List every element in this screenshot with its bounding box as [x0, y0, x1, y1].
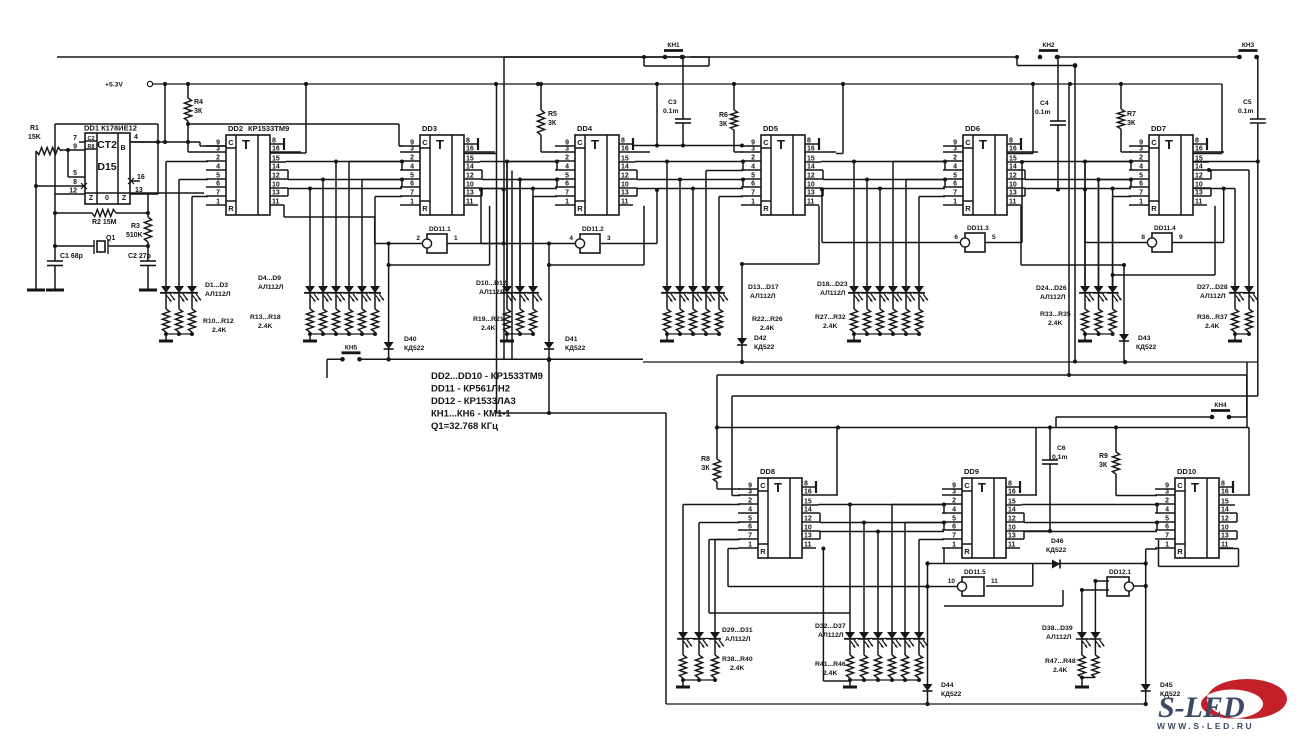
svg-text:S-LED: S-LED: [1158, 691, 1245, 724]
svg-text:T: T: [979, 137, 987, 152]
svg-text:10: 10: [948, 578, 956, 585]
svg-text:АЛ112Л: АЛ112Л: [1040, 294, 1066, 301]
svg-text:5: 5: [216, 173, 220, 180]
svg-text:C3: C3: [668, 99, 677, 106]
svg-text:5: 5: [953, 173, 957, 180]
svg-text:3: 3: [748, 489, 752, 496]
svg-text:11: 11: [991, 578, 998, 585]
svg-text:D43: D43: [1138, 335, 1151, 342]
svg-text:DD11.1: DD11.1: [429, 226, 451, 233]
svg-text:R7: R7: [1127, 111, 1136, 118]
svg-text:R: R: [763, 204, 769, 213]
svg-text:T: T: [777, 137, 785, 152]
svg-text:DD1 К178ИЕ12: DD1 К178ИЕ12: [84, 124, 137, 133]
svg-text:T: T: [774, 480, 782, 495]
svg-text:1: 1: [216, 199, 220, 206]
svg-text:R4: R4: [194, 99, 203, 106]
svg-text:6: 6: [748, 524, 752, 531]
svg-text:2: 2: [565, 155, 569, 162]
svg-text:4: 4: [1139, 164, 1143, 171]
svg-text:DD5: DD5: [763, 124, 778, 133]
svg-text:5: 5: [1139, 173, 1143, 180]
svg-text:D46: D46: [1051, 538, 1064, 545]
svg-text:R22...R26: R22...R26: [752, 316, 783, 323]
svg-text:АЛ112Л: АЛ112Л: [479, 289, 505, 296]
svg-text:0: 0: [105, 195, 109, 202]
svg-text:D27...D28: D27...D28: [1197, 284, 1228, 291]
svg-text:3К: 3К: [548, 120, 557, 127]
svg-text:Q1=32.768 КГц: Q1=32.768 КГц: [431, 421, 498, 432]
svg-text:C: C: [1151, 138, 1157, 147]
svg-text:R10...R12: R10...R12: [203, 318, 234, 325]
svg-text:R41...R46: R41...R46: [815, 661, 846, 668]
svg-text:DD4: DD4: [577, 124, 593, 133]
svg-text:КД522: КД522: [565, 345, 586, 352]
svg-text:R: R: [422, 204, 428, 213]
svg-text:0.1m: 0.1m: [663, 108, 679, 115]
svg-text:0.1m: 0.1m: [1035, 109, 1051, 116]
svg-text:DD6: DD6: [965, 124, 980, 133]
svg-text:3К: 3К: [1099, 462, 1108, 469]
svg-text:КН3: КН3: [1242, 42, 1255, 49]
svg-text:DD9: DD9: [964, 467, 979, 476]
svg-text:6: 6: [1139, 181, 1143, 188]
svg-text:D38...D39: D38...D39: [1042, 625, 1073, 632]
svg-text:2: 2: [1165, 498, 1169, 505]
svg-text:3: 3: [216, 146, 220, 153]
svg-text:DD2...DD10 - КР1533ТМ9: DD2...DD10 - КР1533ТМ9: [431, 371, 543, 382]
svg-text:DD11.5: DD11.5: [964, 569, 986, 576]
svg-text:8: 8: [1141, 234, 1145, 241]
svg-text:4: 4: [565, 164, 569, 171]
svg-text:T: T: [1165, 137, 1173, 152]
svg-text:КД522: КД522: [1046, 547, 1067, 554]
svg-text:5: 5: [410, 173, 414, 180]
svg-text:4: 4: [748, 507, 752, 514]
svg-text:510K: 510K: [126, 232, 143, 239]
svg-text:0.1m: 0.1m: [1238, 108, 1254, 115]
svg-text:3: 3: [1139, 146, 1143, 153]
svg-text:4: 4: [134, 134, 138, 141]
svg-text:2.4K: 2.4K: [1205, 323, 1219, 330]
svg-text:DD7: DD7: [1151, 124, 1166, 133]
svg-text:2: 2: [952, 498, 956, 505]
svg-text:1: 1: [1139, 199, 1143, 206]
svg-text:T: T: [242, 137, 250, 152]
svg-text:1: 1: [454, 235, 458, 242]
svg-text:R: R: [964, 547, 970, 556]
svg-text:T: T: [436, 137, 444, 152]
svg-text:3: 3: [953, 146, 957, 153]
svg-text:2: 2: [953, 155, 957, 162]
svg-text:D41: D41: [565, 336, 578, 343]
svg-text:5: 5: [1165, 516, 1169, 523]
svg-text:DD8: DD8: [760, 467, 775, 476]
svg-text:R36...R37: R36...R37: [1197, 314, 1228, 321]
svg-text:DD11.2: DD11.2: [582, 226, 604, 233]
svg-text:КД522: КД522: [1136, 344, 1157, 351]
svg-text:C: C: [1177, 481, 1183, 490]
svg-text:Z: Z: [89, 195, 94, 202]
svg-text:2.4K: 2.4K: [1048, 320, 1062, 327]
svg-text:C: C: [763, 138, 769, 147]
svg-text:АЛ112Л: АЛ112Л: [1200, 293, 1226, 300]
svg-text:4: 4: [953, 164, 957, 171]
svg-text:4: 4: [751, 164, 755, 171]
svg-text:2: 2: [216, 155, 220, 162]
svg-text:C5: C5: [1243, 99, 1252, 106]
svg-text:7: 7: [216, 190, 220, 197]
svg-text:15K: 15K: [28, 134, 41, 141]
svg-text:C: C: [760, 481, 766, 490]
svg-text:5: 5: [751, 173, 755, 180]
svg-text:6: 6: [952, 524, 956, 531]
svg-text:КН1...КН6 - КМ1-1: КН1...КН6 - КМ1-1: [431, 409, 511, 420]
svg-text:3К: 3К: [1127, 120, 1136, 127]
svg-text:2: 2: [748, 498, 752, 505]
svg-text:WWW.S-LED.RU: WWW.S-LED.RU: [1157, 721, 1254, 731]
svg-text:КД522: КД522: [754, 344, 775, 351]
svg-text:5: 5: [952, 516, 956, 523]
svg-text:3: 3: [1165, 489, 1169, 496]
svg-text:АЛ112Л: АЛ112Л: [205, 291, 231, 298]
svg-text:7: 7: [952, 533, 956, 540]
svg-text:АЛ112Л: АЛ112Л: [725, 636, 751, 643]
svg-text:5: 5: [748, 516, 752, 523]
svg-text:R8: R8: [87, 144, 94, 150]
svg-text:R13...R18: R13...R18: [250, 314, 281, 321]
svg-text:DD11.3: DD11.3: [967, 225, 989, 232]
svg-text:КН4: КН4: [1214, 402, 1227, 409]
svg-text:DD12 - КР1533ЛА3: DD12 - КР1533ЛА3: [431, 396, 516, 407]
svg-text:6: 6: [565, 181, 569, 188]
svg-text:D29...D31: D29...D31: [722, 627, 753, 634]
svg-text:R2 15M: R2 15M: [92, 219, 117, 226]
svg-text:4: 4: [952, 507, 956, 514]
svg-text:3: 3: [751, 146, 755, 153]
svg-text:7: 7: [1139, 190, 1143, 197]
svg-text:D10...D12: D10...D12: [476, 280, 507, 287]
svg-text:2.4K: 2.4K: [481, 325, 495, 332]
svg-text:КН5: КН5: [345, 344, 358, 351]
svg-text:CT2: CT2: [97, 139, 117, 151]
svg-text:2: 2: [1139, 155, 1143, 162]
svg-text:5: 5: [73, 170, 77, 177]
svg-text:DD11.4: DD11.4: [1154, 225, 1176, 232]
svg-text:C: C: [577, 138, 583, 147]
svg-text:R9: R9: [1099, 453, 1108, 460]
svg-text:КН1: КН1: [667, 42, 680, 49]
svg-text:T: T: [978, 480, 986, 495]
svg-text:R: R: [577, 204, 583, 213]
svg-text:D1...D3: D1...D3: [205, 282, 228, 289]
svg-text:4: 4: [410, 164, 414, 171]
svg-text:T: T: [591, 137, 599, 152]
svg-text:R33...R35: R33...R35: [1040, 311, 1071, 318]
svg-text:1: 1: [953, 199, 957, 206]
svg-text:D15: D15: [97, 161, 116, 173]
svg-text:КН2: КН2: [1042, 42, 1055, 49]
svg-text:1: 1: [952, 542, 956, 549]
svg-text:6: 6: [954, 234, 958, 241]
svg-text:4: 4: [569, 235, 573, 242]
svg-text:D44: D44: [941, 682, 954, 689]
svg-text:6: 6: [751, 181, 755, 188]
svg-text:6: 6: [1165, 524, 1169, 531]
svg-text:3: 3: [410, 146, 414, 153]
svg-text:АЛ112Л: АЛ112Л: [1046, 634, 1072, 641]
svg-text:16: 16: [137, 174, 145, 181]
svg-text:ЗК: ЗК: [701, 465, 710, 472]
svg-text:4: 4: [1165, 507, 1169, 514]
svg-text:R: R: [965, 204, 971, 213]
svg-text:D18...D23: D18...D23: [817, 281, 848, 288]
svg-text:6: 6: [216, 181, 220, 188]
svg-text:DD10: DD10: [1177, 467, 1196, 476]
svg-text:1: 1: [748, 542, 752, 549]
svg-text:C: C: [228, 138, 234, 147]
svg-text:DD12.1: DD12.1: [1109, 569, 1131, 576]
svg-text:3К: 3К: [719, 121, 728, 128]
svg-text:R27...R32: R27...R32: [815, 314, 846, 321]
svg-text:D45: D45: [1160, 682, 1173, 689]
svg-text:R19...R21: R19...R21: [473, 316, 504, 323]
svg-text:R1: R1: [30, 125, 39, 132]
svg-text:2: 2: [410, 155, 414, 162]
svg-text:C1 68p: C1 68p: [60, 253, 83, 260]
svg-text:C6: C6: [1057, 445, 1066, 452]
svg-text:DD3: DD3: [422, 124, 437, 133]
svg-text:R: R: [228, 204, 234, 213]
svg-text:3: 3: [952, 489, 956, 496]
svg-text:R38...R40: R38...R40: [722, 656, 753, 663]
svg-text:9: 9: [1179, 234, 1183, 241]
svg-text:2.4K: 2.4K: [823, 670, 837, 677]
svg-text:6: 6: [953, 181, 957, 188]
svg-text:3: 3: [565, 146, 569, 153]
svg-text:1: 1: [410, 199, 414, 206]
svg-text:R5: R5: [548, 111, 557, 118]
svg-text:5: 5: [565, 173, 569, 180]
svg-text:КД522: КД522: [941, 691, 962, 698]
svg-text:B: B: [120, 145, 125, 152]
svg-text:4: 4: [216, 164, 220, 171]
svg-text:R47...R48: R47...R48: [1045, 658, 1076, 665]
svg-text:8: 8: [73, 179, 77, 186]
svg-text:2.4K: 2.4K: [760, 325, 774, 332]
svg-text:R6: R6: [719, 112, 728, 119]
svg-text:7: 7: [751, 190, 755, 197]
svg-text:R: R: [1151, 204, 1157, 213]
svg-text:КР1533ТМ9: КР1533ТМ9: [248, 124, 289, 133]
svg-text:2.4K: 2.4K: [823, 323, 837, 330]
svg-text:АЛ112Л: АЛ112Л: [820, 290, 846, 297]
svg-text:2: 2: [416, 235, 420, 242]
svg-text:13: 13: [135, 187, 143, 194]
svg-text:+5.3V: +5.3V: [105, 82, 123, 89]
svg-text:D40: D40: [404, 336, 417, 343]
svg-text:1: 1: [565, 199, 569, 206]
svg-text:АЛ112Л: АЛ112Л: [818, 632, 844, 639]
svg-text:D24...D26: D24...D26: [1036, 285, 1067, 292]
svg-text:D32...D37: D32...D37: [815, 623, 846, 630]
svg-text:АЛ112Л: АЛ112Л: [750, 293, 776, 300]
svg-text:7: 7: [1165, 533, 1169, 540]
svg-text:КД522: КД522: [404, 345, 425, 352]
svg-text:2: 2: [751, 155, 755, 162]
svg-text:7: 7: [73, 135, 77, 142]
svg-text:6: 6: [410, 181, 414, 188]
svg-text:C: C: [965, 138, 971, 147]
svg-text:R: R: [1177, 547, 1183, 556]
svg-text:3: 3: [607, 235, 611, 242]
svg-text:D4...D9: D4...D9: [258, 275, 281, 282]
svg-text:R3: R3: [131, 223, 140, 230]
svg-text:DD11 - КР561ЛН2: DD11 - КР561ЛН2: [431, 384, 510, 395]
svg-text:1: 1: [751, 199, 755, 206]
svg-text:R: R: [760, 547, 766, 556]
svg-text:DD2: DD2: [228, 124, 243, 133]
svg-text:C: C: [422, 138, 428, 147]
svg-text:3К: 3К: [194, 108, 203, 115]
svg-text:T: T: [1191, 480, 1199, 495]
svg-text:D13...D17: D13...D17: [748, 284, 779, 291]
svg-text:C4: C4: [1040, 100, 1049, 107]
svg-text:7: 7: [953, 190, 957, 197]
svg-text:2.4K: 2.4K: [258, 323, 272, 330]
svg-text:АЛ112Л: АЛ112Л: [258, 284, 284, 291]
svg-text:R8: R8: [701, 456, 710, 463]
svg-text:2.4K: 2.4K: [212, 327, 226, 334]
svg-text:C: C: [964, 481, 970, 490]
svg-text:5: 5: [992, 234, 996, 241]
svg-text:2.4K: 2.4K: [730, 665, 744, 672]
svg-text:7: 7: [748, 533, 752, 540]
svg-text:7: 7: [410, 190, 414, 197]
svg-text:1: 1: [1165, 542, 1169, 549]
svg-text:Z: Z: [122, 195, 127, 202]
svg-text:D42: D42: [754, 335, 767, 342]
svg-text:2.4K: 2.4K: [1053, 667, 1067, 674]
svg-text:C2: C2: [87, 136, 94, 142]
svg-text:7: 7: [565, 190, 569, 197]
